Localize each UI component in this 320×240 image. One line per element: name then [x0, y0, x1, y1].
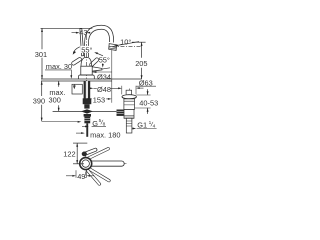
wire 55 arc left: [73, 47, 80, 54]
top view lever: [82, 148, 97, 156]
dimension 40-53: [135, 95, 151, 108]
mounting nut: [83, 98, 92, 104]
svg-text:301: 301: [35, 50, 47, 59]
dimension O48: [93, 87, 96, 89]
svg-text:Ø48: Ø48: [97, 85, 111, 94]
popup waste knob: [126, 90, 132, 95]
dimension max.300: [58, 81, 60, 111]
popup waste body: [124, 99, 135, 110]
svg-text:300: 300: [49, 95, 61, 104]
G5/8 connector: [84, 114, 91, 117]
cartridge dome: [81, 57, 92, 66]
svg-text:10°: 10°: [120, 38, 131, 47]
wire wedge leader: [102, 68, 110, 69]
svg-text:40-53: 40-53: [139, 98, 158, 107]
wire 390 bottom line with arrow to connector: [42, 121, 78, 123]
dimension 390: [41, 81, 43, 121]
dimension 43: [72, 32, 79, 34]
wire 10 deg angled line: [115, 42, 140, 46]
svg-text:390: 390: [33, 96, 45, 105]
svg-text:153: 153: [93, 95, 105, 104]
supply hose: [86, 123, 88, 137]
top view spout: [88, 161, 125, 166]
top view centerlines: [85, 156, 87, 179]
dimension 205: [132, 41, 146, 43]
popup waste lower body: [124, 110, 134, 119]
mounting bracket: [72, 84, 82, 94]
dimension 301: [41, 28, 43, 79]
dimension 153: [88, 98, 92, 100]
dimension 49: [76, 170, 87, 178]
svg-text:122: 122: [63, 150, 75, 159]
spout inner curve: [88, 29, 109, 57]
label max.180 leader: [76, 132, 81, 134]
countertop deck top line: [41, 78, 142, 80]
svg-text:max. 180: max. 180: [90, 131, 120, 140]
svg-text:1: 1: [149, 120, 152, 126]
popup waste tube: [126, 118, 132, 133]
wire 10 deg dash-dot reference: [113, 45, 143, 47]
top view swivel bar down 2: [86, 168, 102, 186]
top view swivel bar up: [87, 147, 110, 160]
top view body ring: [80, 158, 92, 170]
drain centerline: [128, 89, 130, 134]
svg-text:55°: 55°: [81, 46, 92, 55]
lever raised position: [80, 29, 84, 56]
body cylinder: [81, 66, 92, 75]
base plinth: [79, 75, 95, 79]
top view swivel bar down 1: [86, 166, 110, 182]
svg-text:Ø34: Ø34: [97, 72, 111, 81]
wire 55-2 leader down: [102, 63, 104, 65]
wire body diameter line: [92, 71, 111, 73]
svg-text:43: 43: [79, 28, 87, 37]
lever closed right wedge: [90, 66, 102, 71]
popup waste side protrusion: [117, 110, 124, 116]
hose connection diamond: [81, 109, 93, 113]
wire top extension line: [41, 27, 93, 29]
popup waste flange: [122, 95, 136, 99]
svg-text:55°: 55°: [99, 55, 110, 64]
svg-text:5: 5: [99, 118, 102, 124]
wire outlet extension line: [111, 50, 113, 103]
label G5/8 leader: [82, 125, 86, 127]
dimension 122: [73, 142, 87, 144]
wire hose level line: [53, 110, 127, 112]
aerator outlet: [109, 44, 117, 51]
shank threaded: [84, 81, 91, 102]
spout outer curve: [85, 25, 114, 57]
svg-text:205: 205: [135, 59, 147, 68]
svg-text:49: 49: [77, 172, 85, 181]
top view lever cap: [82, 152, 87, 157]
lever closed left petal: [71, 57, 82, 66]
label 55deg first: [81, 46, 96, 53]
wire centerline faucet axis: [86, 35, 88, 103]
wire 55-2 leader up: [97, 53, 104, 56]
countertop deck bottom line: [41, 80, 112, 82]
lever petal right: [89, 57, 100, 67]
